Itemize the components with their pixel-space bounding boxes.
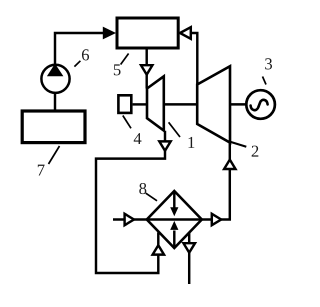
label 3 bbox=[265, 58, 272, 69]
wire heater 5 bottom to compressor 1 inlet bbox=[145, 49, 147, 89]
hollow arrow up into turbine 2 bottom bbox=[224, 160, 235, 169]
compressor trapezoid 1 bbox=[147, 76, 164, 130]
label 6 bbox=[82, 49, 89, 60]
leader tick for label 6 bbox=[74, 61, 80, 67]
hollow arrow up into heat exchanger 8 lower-left edge bbox=[153, 245, 164, 254]
heater rectangle 5 bbox=[117, 18, 178, 48]
generator circle 3 bbox=[246, 90, 275, 119]
exhaust wire down from heat exchanger 8 lower-right edge bbox=[188, 232, 190, 284]
leader tick for label 2 bbox=[229, 141, 247, 147]
label 2 bbox=[252, 146, 259, 157]
hollow arrow down on exhaust wire bbox=[184, 243, 196, 252]
leader tick for label 8 bbox=[146, 193, 157, 201]
shaft compressor 1 to turbine 2 bbox=[164, 103, 197, 105]
leader tick for label 5 bbox=[121, 54, 129, 65]
label 1 bbox=[188, 137, 194, 148]
heat exchanger diamond 8 bbox=[147, 191, 202, 248]
tank rectangle 7 bbox=[22, 111, 85, 143]
wire pump 6 to tank 7 bbox=[54, 94, 56, 111]
wire valve 4 to compressor 1 bbox=[133, 103, 146, 105]
label 5 bbox=[114, 64, 121, 75]
label 7 bbox=[38, 165, 45, 176]
hollow arrow down below compressor 1 bbox=[159, 141, 170, 150]
label 4 bbox=[134, 133, 142, 144]
hollow arrow down below heater 5 bbox=[141, 65, 152, 74]
hollow arrow right into heat exchanger 8 left bbox=[125, 214, 134, 225]
leader tick for label 1 bbox=[169, 122, 180, 137]
shaft turbine 2 to generator 3 bbox=[230, 103, 247, 105]
wire through heat exchanger 8 and up to turbine 2 bottom bbox=[113, 143, 230, 220]
leader tick for label 7 bbox=[49, 146, 60, 164]
wire compressor 1 outlet loop down left and to heat exchanger 8 bbox=[96, 131, 165, 273]
heat exchanger 8 internal down arrow bbox=[173, 192, 175, 209]
leader tick for label 4 bbox=[123, 116, 131, 129]
wire from turbine 2 top-left up and left into heater 5 right bbox=[190, 33, 198, 85]
generator 3 sine symbol bbox=[251, 100, 268, 110]
valve square 4 bbox=[118, 95, 131, 113]
pump circle 6 bbox=[41, 65, 69, 93]
hollow arrow left into heater 5 right side bbox=[180, 27, 191, 39]
leader tick for label 3 bbox=[263, 77, 267, 85]
heat exchanger 8 internal up arrow bbox=[173, 231, 175, 248]
hollow arrow right out of heat exchanger 8 right bbox=[212, 214, 221, 225]
turbine trapezoid 2 bbox=[197, 66, 230, 142]
wire pump 6 up and right to heater 5 bbox=[55, 33, 103, 65]
pump 6 filled triangle bbox=[47, 64, 64, 77]
filled arrow into heater 5 left bbox=[103, 27, 116, 40]
label 8 bbox=[139, 183, 146, 194]
